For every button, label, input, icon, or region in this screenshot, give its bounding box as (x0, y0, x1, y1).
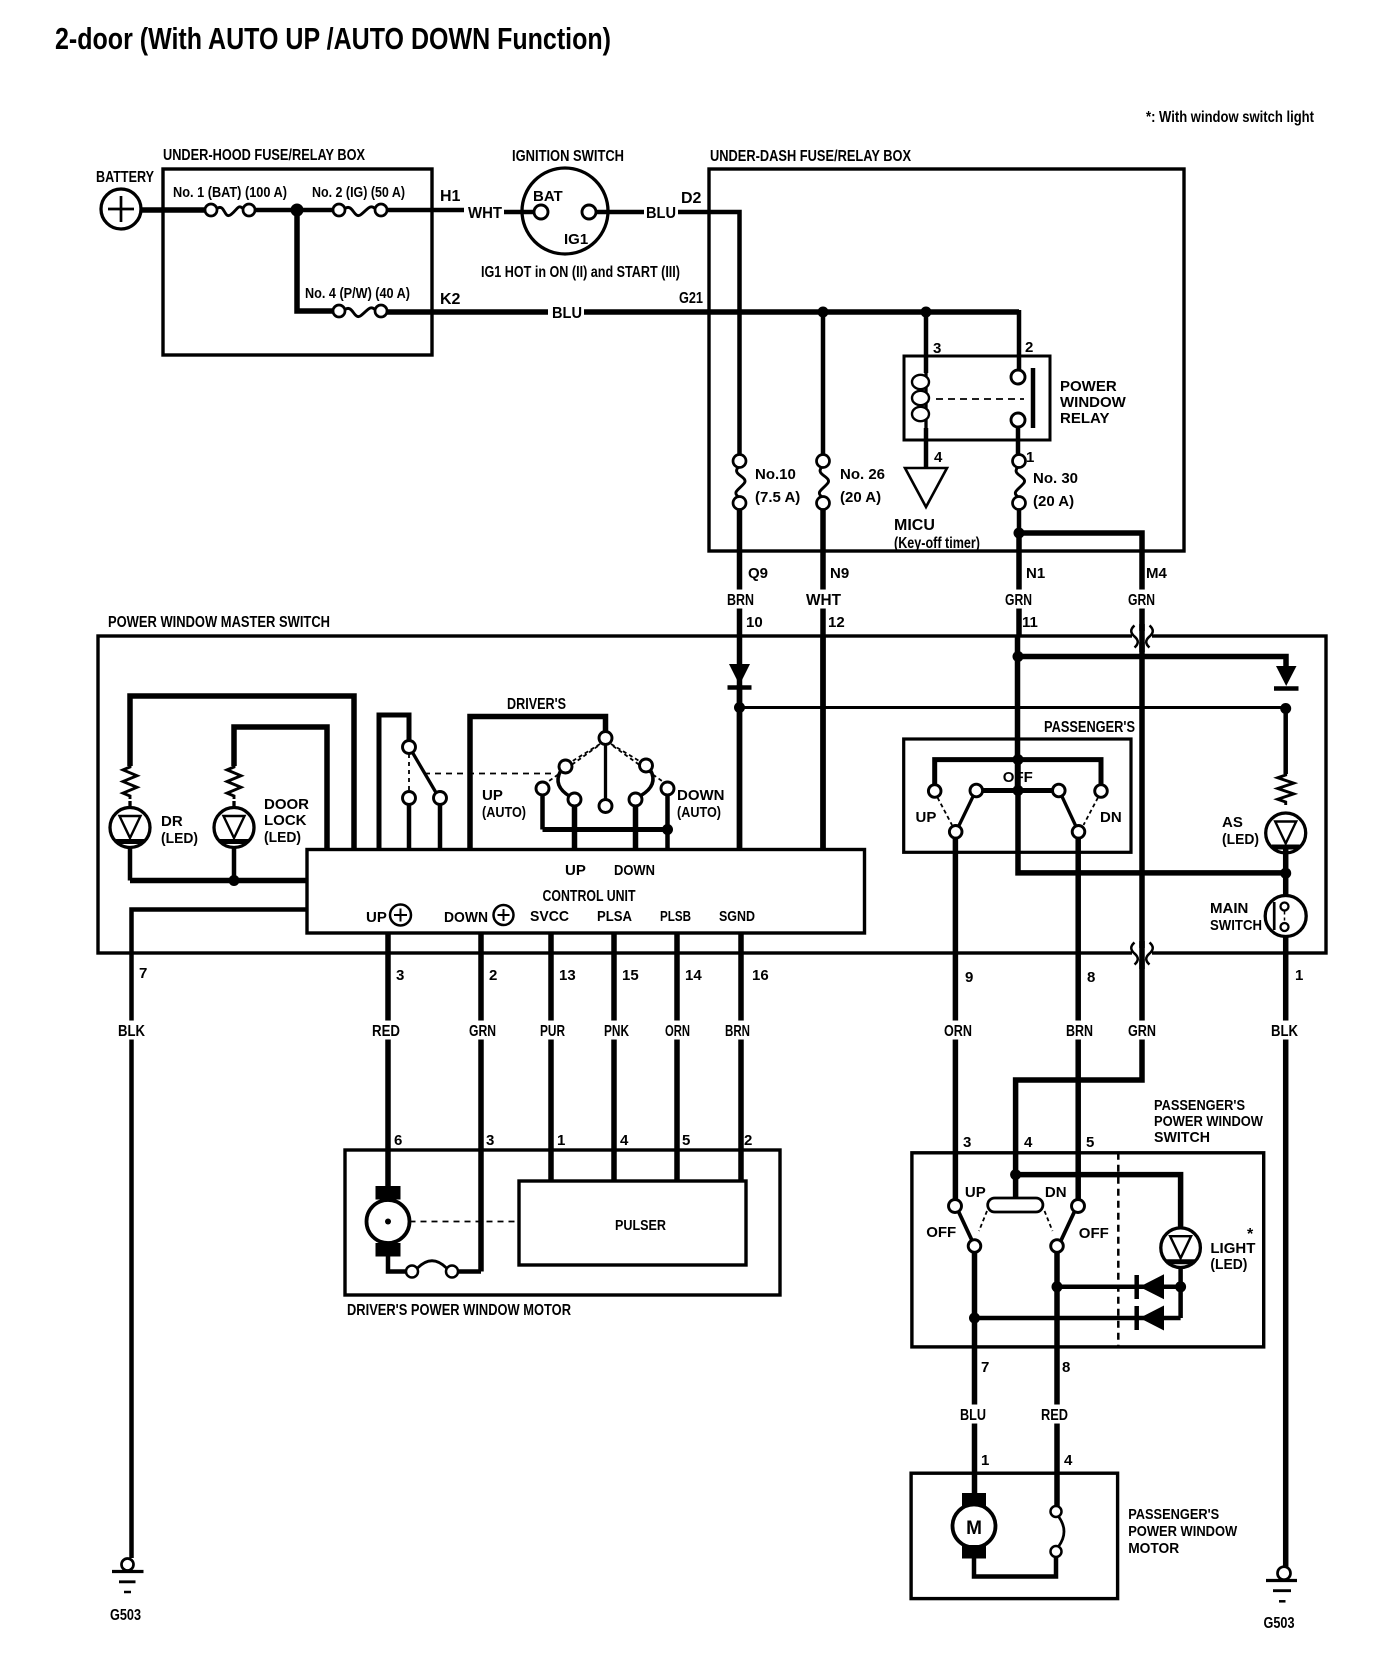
svg-text:PASSENGER'S: PASSENGER'S (1128, 1506, 1219, 1523)
dashed divider (1117, 1153, 1120, 1347)
node N1 branch to AS diode (1013, 651, 1024, 662)
svg-text:POWER WINDOW: POWER WINDOW (1154, 1113, 1264, 1130)
svg-text:BRN: BRN (727, 592, 754, 609)
driver's switch dashed fan (571, 744, 600, 762)
svg-text:WHT: WHT (806, 592, 841, 609)
svg-text:PLSB: PLSB (660, 908, 691, 925)
svg-text:7: 7 (139, 965, 147, 982)
ground G503 right (1278, 1567, 1291, 1580)
wire fuse No.30 to node (1017, 510, 1022, 534)
svg-text:DR: DR (161, 813, 183, 830)
fuse No.30 (20 A) (1013, 455, 1026, 468)
passenger door UP terminal (949, 1200, 962, 1213)
svg-text:4: 4 (620, 1132, 629, 1149)
node BLU diode junction (969, 1313, 980, 1324)
rocker pill (1013, 1175, 1019, 1198)
ground G503 left (122, 1559, 134, 1571)
passenger door DN blade (1061, 1212, 1075, 1241)
passenger door DN terminal (1072, 1200, 1085, 1213)
wire to light LED (1016, 1175, 1181, 1228)
svg-text:4: 4 (1024, 1134, 1033, 1151)
passenger switch UP terminal (928, 785, 941, 798)
svg-text:SVCC: SVCC (530, 908, 569, 925)
svg-text:12: 12 (828, 614, 845, 631)
node N1 in passenger switch (1013, 754, 1024, 765)
LED AS (1266, 813, 1306, 853)
passenger switch DN blade (1062, 797, 1076, 827)
wire N1 GRN label (1002, 590, 1035, 609)
svg-text:*: * (1247, 1226, 1254, 1243)
under-hood fuse/relay box (163, 169, 432, 355)
wire interior link (740, 706, 1286, 709)
svg-text:No. 30: No. 30 (1033, 470, 1078, 487)
passenger switch UP common (949, 826, 962, 839)
svg-text:K2: K2 (440, 291, 461, 308)
fuse No.4 (P/W) (40 A) (333, 305, 345, 317)
MICU arrow (905, 468, 947, 507)
battery BAT (101, 189, 141, 229)
link connector driver motor (406, 1266, 418, 1278)
svg-text:14: 14 (685, 967, 702, 984)
wire N1 GRN into master switch (1015, 636, 1021, 791)
wire node to connector N1 (1016, 533, 1022, 636)
node G21 to No.26 fuse (818, 307, 829, 318)
svg-text:4: 4 (1064, 1452, 1073, 1469)
svg-text:GRN: GRN (469, 1023, 496, 1040)
link connector passenger motor (1051, 1506, 1062, 1517)
wire G21 node to fuse No.26 (821, 312, 826, 454)
ignition terminal BAT (534, 205, 548, 219)
svg-text:UP: UP (916, 809, 937, 826)
wire pin15 PNK to pulser (611, 933, 617, 1181)
wire LED to diodes (1178, 1268, 1183, 1319)
svg-text:IG1: IG1 (564, 231, 588, 248)
svg-text:PASSENGER'S: PASSENGER'S (1044, 719, 1135, 736)
auto bus wire (543, 827, 668, 832)
wire OFF common to AS (1018, 791, 1286, 873)
lower diode wire (975, 1316, 1181, 1321)
svg-text:AS: AS (1222, 814, 1243, 831)
svg-text:DOWN: DOWN (444, 909, 488, 926)
wire fuse No.1 to node (255, 208, 333, 213)
fuse No.1 (BAT) (100 A) (205, 204, 217, 216)
passenger door UP common (968, 1240, 981, 1253)
svg-text:No. 2 (IG) (50 A): No. 2 (IG) (50 A) (312, 184, 405, 201)
svg-text:1: 1 (557, 1132, 565, 1149)
wire pin3 RED to motor (385, 933, 391, 1188)
node LED common (229, 875, 240, 886)
resistor AS LED (1278, 774, 1294, 805)
svg-text:DN: DN (1100, 809, 1122, 826)
svg-text:(20 A): (20 A) (1033, 493, 1074, 510)
node G21 to relay coil (921, 307, 932, 318)
dashed mech link (424, 773, 556, 775)
svg-text:CONTROL UNIT: CONTROL UNIT (543, 888, 636, 905)
svg-text:(20 A): (20 A) (840, 489, 881, 506)
wire main switch BLK to ground (1283, 937, 1289, 1569)
motor M1 driver (376, 1186, 401, 1200)
svg-text:MAIN: MAIN (1210, 900, 1248, 917)
svg-text:POWER WINDOW: POWER WINDOW (1128, 1523, 1238, 1540)
svg-text:UNDER-HOOD FUSE/RELAY BOX: UNDER-HOOD FUSE/RELAY BOX (163, 147, 365, 164)
svg-text:BATTERY: BATTERY (96, 169, 154, 186)
svg-text:(LED): (LED) (161, 830, 198, 847)
svg-text:SWITCH: SWITCH (1210, 917, 1262, 934)
fuse No.26 (20 A) (817, 455, 830, 468)
wire DOWN AUTO bus (665, 795, 670, 850)
svg-text:Q9: Q9 (748, 565, 768, 582)
driver's switch pivot (599, 732, 612, 745)
relay contact terminal pin2 (1011, 370, 1025, 384)
wire node to M4 (1016, 533, 1142, 1175)
node battery feed junction (291, 204, 304, 217)
svg-text:8: 8 (1087, 969, 1095, 986)
wire DOOR LOCK LED cathode (232, 848, 237, 881)
driver's switch DOWN contact arc (640, 759, 653, 772)
svg-text:BLK: BLK (118, 1023, 145, 1040)
relay coil (924, 370, 927, 428)
svg-text:5: 5 (1086, 1134, 1094, 1151)
node N1/M4 split (1014, 528, 1025, 539)
driver's switch DOWN(AUTO) terminal (661, 782, 674, 795)
svg-text:GRN: GRN (1005, 592, 1032, 609)
svg-text:2: 2 (489, 967, 497, 984)
resistor DR LED (123, 766, 137, 799)
svg-text:LOCK: LOCK (264, 812, 307, 829)
wire G21 node to relay pin 3 (924, 312, 929, 373)
driver's power window motor box (345, 1150, 780, 1295)
svg-text:OFF: OFF (1079, 1225, 1109, 1242)
wire DOOR LOCK LED feed (234, 727, 327, 850)
passenger switch UP blade (959, 797, 974, 827)
svg-text:*: With window switch light: *: With window switch light (1146, 109, 1314, 126)
wire M4 GRN label 2 (1125, 1021, 1159, 1040)
svg-text:OFF: OFF (926, 1224, 956, 1241)
svg-text:G21: G21 (679, 290, 703, 307)
svg-text:PLSA: PLSA (597, 908, 632, 925)
passenger's power window switch box (912, 1153, 1264, 1347)
wire fuse No.10 to connector Q9 (737, 510, 743, 851)
under-dash fuse/relay box (709, 169, 1184, 551)
relay contact terminal pin1 (1011, 413, 1025, 427)
svg-text:2: 2 (1025, 339, 1033, 356)
passenger switch DN blade terminal (1053, 784, 1066, 797)
wire DR LED cathode (128, 848, 133, 881)
svg-text:PNK: PNK (604, 1023, 629, 1040)
wire D2 into under-dash box (678, 212, 740, 455)
resistor DOOR LOCK LED (227, 766, 241, 799)
wire LED common to control unit (130, 878, 307, 884)
relay link dashed (936, 398, 1024, 400)
svg-text:1: 1 (1026, 449, 1034, 466)
svg-text:DRIVER'S POWER WINDOW MOTOR: DRIVER'S POWER WINDOW MOTOR (347, 1302, 571, 1319)
passenger switch middle wire (983, 788, 1053, 793)
svg-text:DOOR: DOOR (264, 796, 309, 813)
wire pin16 BRN to pulser (738, 933, 744, 1181)
svg-text:11: 11 (1022, 614, 1038, 631)
svg-text:3: 3 (933, 340, 941, 357)
svg-text:POWER WINDOW MASTER SWITCH: POWER WINDOW MASTER SWITCH (108, 614, 330, 631)
svg-text:PUR: PUR (540, 1023, 565, 1040)
wire N1 between nodes (1015, 760, 1021, 791)
svg-text:7: 7 (981, 1359, 989, 1376)
passenger door DN common (1051, 1240, 1064, 1253)
node AS LED cathode (1280, 868, 1291, 879)
svg-text:(LED): (LED) (1210, 1256, 1247, 1273)
wire AS LED to main switch (1283, 848, 1289, 897)
svg-text:(AUTO): (AUTO) (677, 804, 721, 821)
svg-text:1: 1 (981, 1452, 989, 1469)
svg-text:DOWN: DOWN (677, 787, 725, 804)
svg-text:No.10: No.10 (755, 466, 796, 483)
LED DOOR LOCK (232, 801, 235, 808)
passenger switch DN terminal (1095, 785, 1108, 798)
svg-text:15: 15 (622, 967, 639, 984)
LED DR (128, 801, 131, 808)
svg-text:(LED): (LED) (264, 829, 301, 846)
wire H1 WHT to ignition switch (387, 208, 464, 213)
driver's switch stem (604, 745, 607, 800)
svg-text:N9: N9 (830, 565, 849, 582)
svg-text:WHT: WHT (468, 205, 502, 222)
svg-text:16: 16 (752, 967, 769, 984)
svg-text:UP: UP (965, 1184, 986, 1201)
svg-text:ORN: ORN (944, 1023, 972, 1040)
wire AS diode to resistor (1283, 709, 1288, 775)
wire M4 GRN label (1125, 590, 1158, 609)
svg-text:3: 3 (486, 1132, 494, 1149)
driver's switch UP contact arc (559, 760, 572, 773)
wire control unit pin 7 BLK to ground (132, 910, 308, 1559)
diode D2 AS (1276, 666, 1297, 686)
passenger door UP blade (959, 1212, 973, 1241)
svg-text:MOTOR: MOTOR (1128, 1540, 1179, 1557)
control unit box (307, 850, 865, 934)
wire 7 BLU to motor (972, 1252, 978, 1493)
motor M2 passenger (962, 1493, 986, 1507)
wire DOWN to control unit (633, 806, 639, 850)
ignition terminal IG1 (582, 205, 596, 219)
svg-text:G503: G503 (1264, 1615, 1295, 1632)
passenger switch DN common (1072, 826, 1085, 839)
svg-text:(LED): (LED) (1222, 831, 1259, 848)
wire UP AUTO to bus (540, 795, 545, 830)
svg-text:DOWN: DOWN (614, 862, 655, 879)
node LED cathode (1175, 1281, 1186, 1292)
diode D4 lower (1134, 1306, 1139, 1330)
wire N9 WHT label (803, 590, 844, 609)
svg-text:ORN: ORN (665, 1023, 690, 1040)
svg-text:No. 26: No. 26 (840, 466, 885, 483)
svg-text:BRN: BRN (725, 1023, 750, 1040)
passenger's power window motor box (911, 1473, 1118, 1598)
svg-text:BLU: BLU (960, 1407, 986, 1424)
wire pin14 ORN to pulser (674, 933, 680, 1181)
svg-text:BLU: BLU (552, 305, 582, 322)
svg-text:N1: N1 (1026, 565, 1045, 582)
wire BRN to control unit (737, 685, 743, 850)
svg-text:RED: RED (372, 1023, 400, 1040)
node auto bus (662, 824, 673, 835)
svg-text:UP: UP (482, 787, 503, 804)
wire DR LED feed (130, 696, 354, 850)
node OFF common (1013, 785, 1024, 796)
wire Q9 BRN label (724, 590, 757, 609)
svg-text:D2: D2 (681, 190, 702, 207)
wire motor to link (388, 1256, 407, 1272)
svg-text:4: 4 (934, 449, 943, 466)
passenger switch top wire (935, 760, 1101, 785)
svg-text:6: 6 (394, 1132, 402, 1149)
power window relay (904, 356, 1050, 440)
wire battery node to fuse No.4 (297, 208, 333, 311)
dashed motor-pulser link (410, 1221, 520, 1223)
pulser box (519, 1181, 746, 1265)
wire N1 to AS diode (1018, 657, 1286, 667)
svg-text:IG1 HOT in ON (II) and START (: IG1 HOT in ON (II) and START (III) (481, 264, 680, 281)
diode D3 upper (1134, 1275, 1139, 1299)
svg-text:WINDOW: WINDOW (1060, 394, 1127, 411)
svg-text:3: 3 (963, 1134, 971, 1151)
node under diode D1 (734, 702, 745, 713)
fuse No.10 (7.5 A) (733, 455, 746, 468)
passenger's switch box (904, 739, 1131, 852)
wire WHT to control unit (820, 636, 826, 850)
wire fuse No.26 to connector N9 (820, 510, 826, 851)
break mark M4 bottom (1132, 948, 1152, 959)
svg-text:GRN: GRN (1128, 1023, 1156, 1040)
ignition switch (522, 168, 608, 254)
wire G21 to relay pin 2 (1017, 310, 1022, 371)
svg-text:UP: UP (565, 862, 586, 879)
node under AS diode (1280, 703, 1291, 714)
svg-text:SGND: SGND (719, 908, 755, 925)
svg-text:BLK: BLK (1271, 1023, 1298, 1040)
wire relay pin 1 to fuse No.30 (1016, 427, 1021, 455)
wire 8 BRN down (1075, 838, 1081, 1200)
svg-text:M4: M4 (1146, 565, 1167, 582)
svg-text:No. 1 (BAT) (100 A): No. 1 (BAT) (100 A) (173, 184, 287, 201)
svg-text:PULSER: PULSER (615, 1217, 666, 1234)
svg-text:UP: UP (366, 909, 387, 926)
svg-text:GRN: GRN (1128, 592, 1155, 609)
wire 9 ORN down (953, 838, 959, 1200)
svg-text:10: 10 (746, 614, 763, 631)
svg-text:M: M (966, 1518, 982, 1539)
svg-text:MICU: MICU (894, 517, 935, 534)
svg-text:RELAY: RELAY (1060, 410, 1109, 427)
svg-text:BLU: BLU (646, 205, 676, 222)
svg-text:(Key-off timer): (Key-off timer) (894, 535, 980, 552)
svg-text:IGNITION SWITCH: IGNITION SWITCH (512, 148, 624, 165)
wire relay pin 4 to MICU (924, 428, 929, 468)
svg-text:(AUTO): (AUTO) (482, 804, 526, 821)
upper diode wire (1057, 1285, 1181, 1290)
wire pin2 GRN to motor (478, 933, 484, 1272)
svg-text:G503: G503 (110, 1607, 141, 1624)
wire motor loop (974, 1557, 1056, 1577)
break mark M4 top (1132, 631, 1152, 642)
svg-text:H1: H1 (440, 188, 461, 205)
relay armature bar (1031, 368, 1036, 428)
svg-text:UNDER-DASH FUSE/RELAY BOX: UNDER-DASH FUSE/RELAY BOX (710, 148, 911, 165)
LED LIGHT (1161, 1228, 1201, 1268)
svg-text:9: 9 (965, 969, 973, 986)
diode D1 on BRN wire (729, 664, 750, 685)
svg-text:3: 3 (396, 967, 404, 984)
svg-text:DN: DN (1045, 1184, 1067, 1201)
svg-text:1: 1 (1295, 967, 1303, 984)
svg-text:13: 13 (559, 967, 576, 984)
power window master switch box (98, 636, 1326, 953)
svg-text:PASSENGER'S: PASSENGER'S (1154, 1097, 1245, 1114)
node light feed (1010, 1169, 1021, 1180)
switch knob lock (379, 715, 409, 850)
wire 8 RED to motor (1054, 1252, 1060, 1506)
driver's switch feed (470, 717, 606, 851)
main switch (1265, 896, 1306, 937)
fuse No.2 (IG) (50 A) (333, 204, 345, 216)
svg-text:BRN: BRN (1066, 1023, 1093, 1040)
wire UP to control unit (572, 806, 578, 850)
svg-text:RED: RED (1041, 1407, 1068, 1424)
wire battery to fuse No.1 (141, 207, 205, 213)
svg-text:DRIVER'S: DRIVER'S (507, 696, 566, 713)
wire pin13 PUR to pulser (548, 933, 554, 1181)
svg-text:2-door (With AUTO UP /AUTO DOW: 2-door (With AUTO UP /AUTO DOWN Function… (55, 21, 611, 56)
node RED diode junction (1052, 1281, 1063, 1292)
svg-text:8: 8 (1062, 1359, 1070, 1376)
driver's switch UP(AUTO) terminal (536, 782, 549, 795)
svg-text:SWITCH: SWITCH (1154, 1129, 1210, 1146)
svg-text:BAT: BAT (533, 188, 563, 205)
svg-text:2: 2 (744, 1132, 752, 1149)
svg-text:5: 5 (682, 1132, 690, 1149)
svg-text:POWER: POWER (1060, 378, 1117, 395)
wire ignition to D2 BLU (596, 210, 644, 215)
svg-text:(7.5 A): (7.5 A) (755, 489, 800, 506)
passenger switch UP blade terminal (970, 784, 983, 797)
svg-text:No. 4 (P/W) (40 A): No. 4 (P/W) (40 A) (305, 285, 410, 302)
